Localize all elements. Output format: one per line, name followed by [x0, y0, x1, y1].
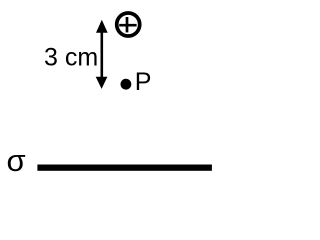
svg-text:P: P	[135, 68, 152, 96]
arrowhead up	[96, 20, 108, 33]
charged plane line	[37, 165, 212, 171]
dimension arrow shaft	[101, 26, 104, 83]
svg-text:σ: σ	[7, 143, 26, 178]
charge plus horizontal	[119, 24, 136, 27]
svg-text:3 cm: 3 cm	[44, 44, 98, 72]
charge plus vertical	[126, 17, 129, 32]
charge symbol circle	[117, 13, 140, 36]
point P dot	[121, 79, 132, 90]
arrowhead down	[96, 77, 108, 89]
